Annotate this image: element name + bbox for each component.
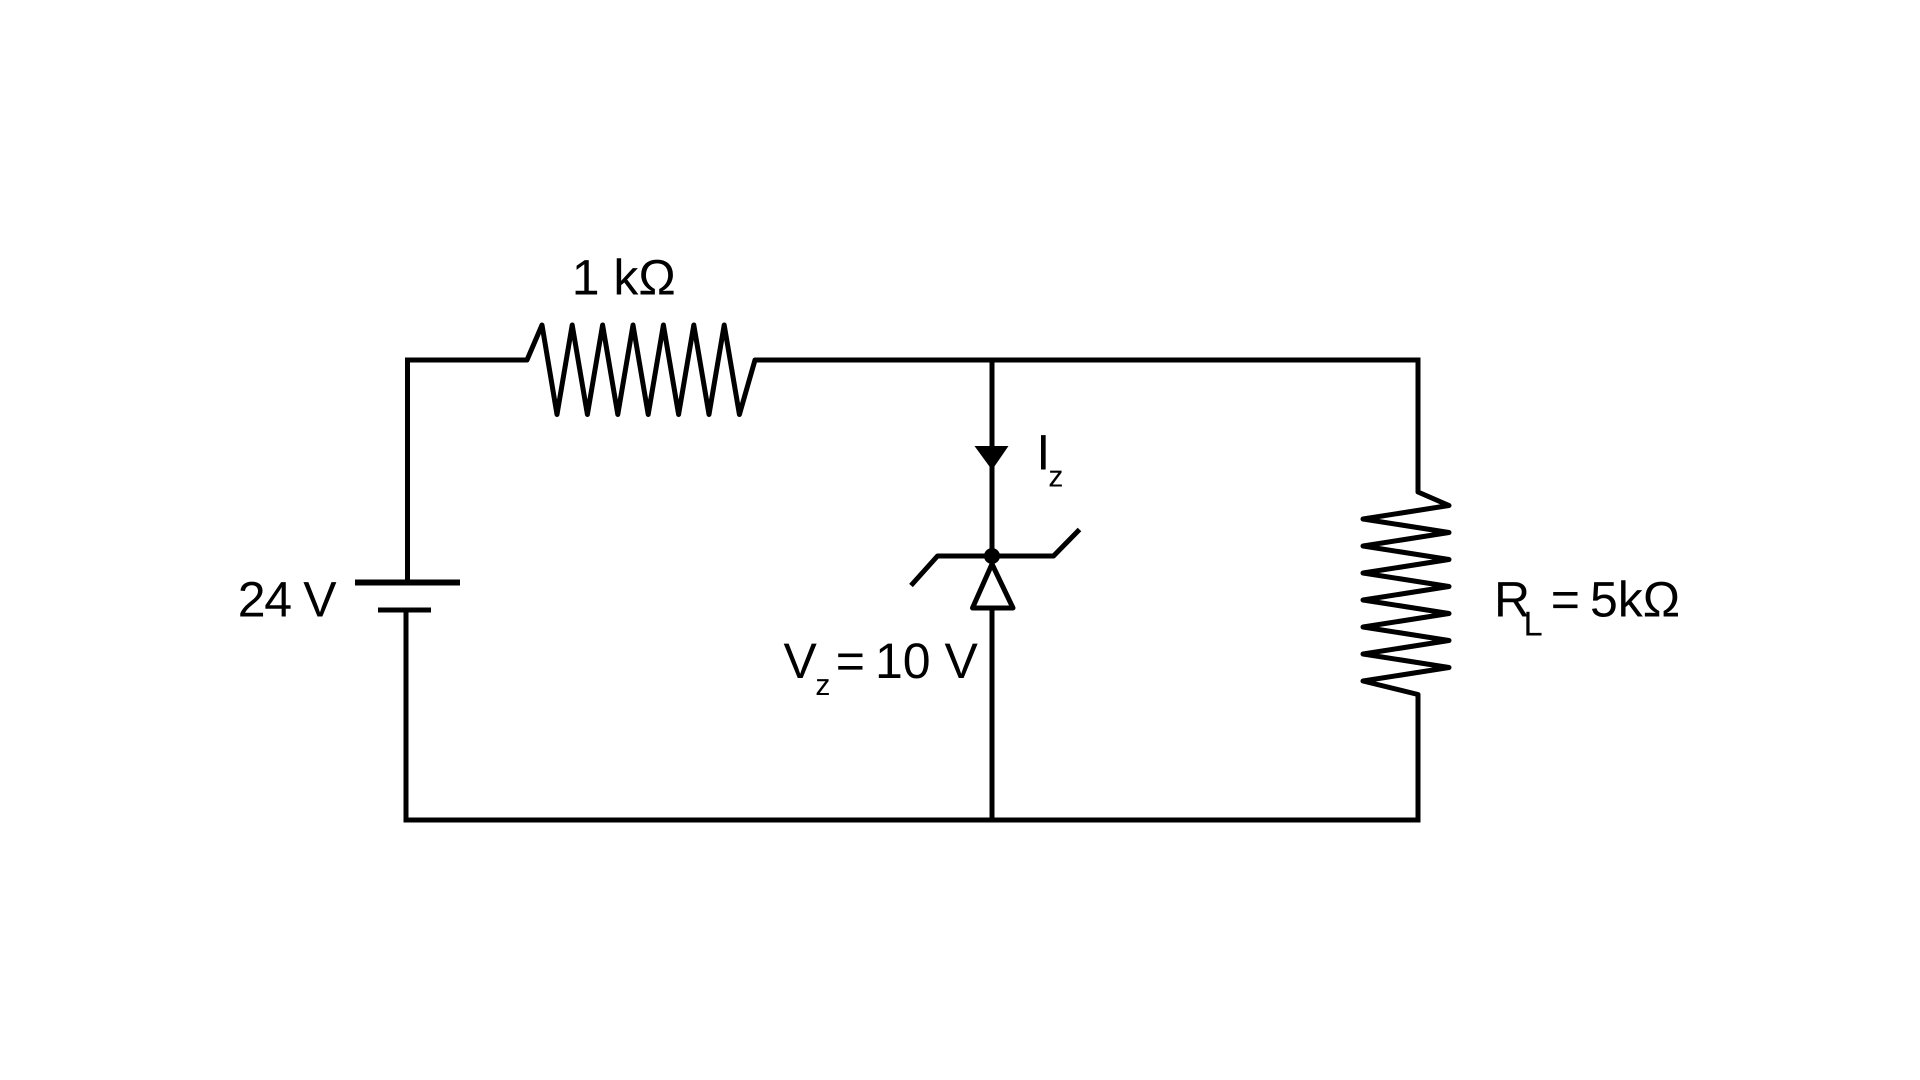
- svg-text:5kΩ: 5kΩ: [1590, 572, 1680, 628]
- svg-text:z: z: [815, 669, 830, 702]
- svg-text:=: =: [836, 633, 865, 689]
- svg-text:z: z: [1048, 461, 1063, 494]
- svg-text:1 kΩ: 1 kΩ: [572, 250, 676, 306]
- svg-text:10 V: 10 V: [875, 633, 979, 689]
- svg-text:24 V: 24 V: [238, 571, 337, 627]
- svg-text:=: =: [1551, 572, 1580, 628]
- svg-text:V: V: [784, 633, 818, 689]
- svg-text:L: L: [1524, 606, 1543, 644]
